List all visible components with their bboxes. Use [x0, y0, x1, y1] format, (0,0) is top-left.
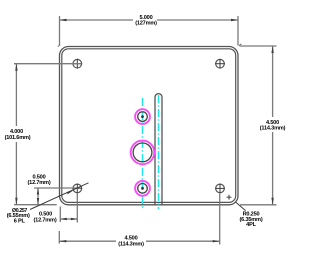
corner hole top-right	[215, 59, 225, 69]
dimension 0.500 vertical: dimension line with arrows	[37, 188, 39, 205]
svg-text:6 PL: 6 PL	[14, 218, 26, 224]
corner hole bottom-left	[72, 184, 82, 194]
svg-text:4PL: 4PL	[246, 222, 256, 228]
dimension 5.000 top: label	[135, 15, 157, 27]
leader corner radius callout	[236, 202, 246, 210]
dimension 5.000 top: dimension line with arrows	[60, 19, 239, 21]
hole middle magenta ring	[131, 141, 155, 165]
dimension 0.500 vertical: label	[28, 175, 51, 187]
dimension 0.500 horizontal: label	[34, 212, 57, 224]
corner tick top-right	[239, 44, 241, 46]
svg-text:(114.3mm): (114.3mm)	[118, 241, 144, 247]
dimension 4.500 right: label	[260, 120, 286, 132]
hole bottom center	[138, 184, 148, 194]
hole bottom center magenta ring	[135, 181, 150, 196]
svg-text:(12.7mm): (12.7mm)	[28, 180, 51, 186]
dimension 0.500 vertical: extension line	[34, 187, 81, 189]
svg-text:(114.3mm): (114.3mm)	[260, 126, 286, 132]
corner hole top-left	[72, 59, 82, 69]
corner hole bottom-right	[215, 184, 225, 194]
holes centerline	[142, 98, 144, 209]
dimension 4.500 right: dimension line with arrows	[271, 46, 273, 205]
dimension 0.500 horizontal: extension lines	[60, 193, 77, 223]
dimension 4.500 bottom: dimension line with arrows	[59, 240, 219, 242]
dimension 4.000 left: label	[5, 129, 31, 141]
hole middle	[133, 143, 152, 162]
hole top center	[138, 112, 148, 122]
svg-text:(127mm): (127mm)	[135, 20, 157, 26]
dimension 0.500 horizontal: dimension line with arrows	[60, 218, 77, 220]
hole top center magenta ring	[135, 109, 150, 124]
dimension 4.000 left: dimension line with arrows	[15, 64, 17, 205]
dimension 4.000 left: extension lines	[14, 64, 82, 205]
svg-text:(101.6mm): (101.6mm)	[5, 135, 31, 141]
slot	[155, 94, 162, 205]
plate inner outline	[62, 49, 236, 203]
dimension 4.500 right: extension lines	[240, 46, 277, 205]
dimension 4.500 bottom: label	[118, 236, 144, 248]
label diameter 0.257 6 PL	[7, 208, 30, 225]
label R0.250 4PL	[240, 212, 263, 229]
plate outer outline	[60, 47, 239, 205]
corner radius center mark	[227, 195, 232, 200]
slot centerline	[158, 95, 160, 209]
svg-text:(12.7mm): (12.7mm)	[34, 217, 57, 223]
leader diameter callout	[30, 183, 89, 210]
corner tick top-left	[58, 45, 60, 47]
dimension 4.500 bottom: extension lines	[59, 194, 219, 245]
dimension 5.000 top: extension lines	[60, 16, 239, 46]
